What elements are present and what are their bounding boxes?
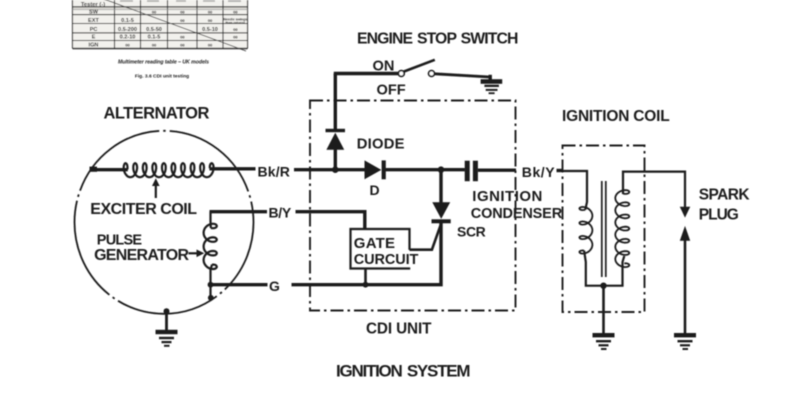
wire: primary coil top lead — [563, 171, 588, 210]
svg-text:∞: ∞ — [233, 9, 238, 16]
wire: pulse generator top lead — [209, 212, 212, 228]
pulse generator pointer arrow — [189, 250, 205, 258]
switch blade — [404, 60, 435, 72]
wire: B/Y from pulse generator — [210, 210, 268, 213]
svg-text:IGNITION COIL: IGNITION COIL — [562, 108, 670, 125]
svg-text:IGN: IGN — [89, 43, 99, 49]
ground: spark plug — [674, 333, 696, 350]
spark plug electrode arrow (up) — [680, 226, 690, 241]
svg-text:GENERATOR: GENERATOR — [94, 247, 189, 264]
gate circuit box — [351, 229, 411, 269]
svg-text:∞: ∞ — [233, 34, 238, 41]
wire: secondary top lead to spark plug — [623, 172, 685, 208]
junction: pulse lead on alternator frame — [208, 295, 214, 301]
wire: B/Y into CDI unit — [296, 212, 365, 230]
junction: pulse coil bottom — [208, 282, 214, 288]
svg-text:GATE: GATE — [354, 235, 395, 252]
wire: switch to ground — [435, 74, 491, 77]
wire: ignition coil ground lead — [602, 286, 605, 334]
svg-text:EXT: EXT — [88, 18, 99, 24]
junction: alternator frame to ground — [164, 308, 170, 314]
svg-text:∞: ∞ — [152, 9, 157, 16]
svg-text:ENGINE STOP SWITCH: ENGINE STOP SWITCH — [357, 30, 518, 47]
multimeter test table background — [73, 0, 248, 49]
SCR — [432, 202, 451, 223]
svg-text:D: D — [370, 182, 380, 198]
svg-text:Multimeter reading table – UK: Multimeter reading table – UK models — [118, 60, 209, 66]
ignition coil enclosure (dash-dot box) — [563, 146, 645, 313]
wire: gate circuit bottom lead — [364, 269, 367, 285]
svg-text:Tester (-): Tester (-) — [81, 2, 105, 8]
ground: ignition coil — [593, 333, 615, 350]
diode (vertical, to stop switch) — [326, 129, 346, 150]
exciter coil pointer arrow — [152, 178, 160, 198]
table row IGN — [89, 42, 213, 49]
svg-text:Bk/R: Bk/R — [258, 163, 291, 179]
wire: exciter coil left lead — [93, 168, 128, 171]
wire: SCR anode lead — [439, 170, 442, 203]
svg-text:0.5-200: 0.5-200 — [118, 27, 137, 33]
table row PC — [90, 26, 238, 33]
svg-text:EXCITER COIL: EXCITER COIL — [90, 201, 197, 218]
svg-text:0.5-10: 0.5-10 — [202, 27, 218, 33]
junction: SCR branch — [438, 166, 445, 173]
svg-text:PC: PC — [90, 27, 98, 33]
svg-text:IGNITION: IGNITION — [472, 188, 543, 205]
svg-text:OFF: OFF — [377, 83, 406, 99]
svg-text:0.2-10: 0.2-10 — [120, 35, 136, 41]
ignition condenser capacitor — [465, 161, 478, 182]
svg-text:∞: ∞ — [152, 42, 157, 49]
svg-text:∞: ∞ — [208, 17, 213, 24]
exciter coil left terminal — [90, 167, 98, 172]
exciter coil — [124, 163, 214, 177]
diode D — [365, 160, 386, 179]
svg-text:∞: ∞ — [180, 42, 185, 49]
table row E — [92, 34, 238, 41]
svg-text:Bk/Y: Bk/Y — [522, 164, 555, 180]
table row SW — [89, 9, 238, 16]
svg-text:CDI UNIT: CDI UNIT — [366, 321, 432, 338]
junction: gate circuit to G wire — [363, 282, 369, 288]
ignition coil primary winding — [579, 207, 592, 254]
junction: coil common to ground — [600, 283, 606, 289]
wire: primary bottom to common — [584, 251, 624, 286]
ignition coil secondary winding — [615, 190, 629, 267]
svg-text:∞: ∞ — [180, 17, 185, 24]
table diagonal line — [101, 0, 246, 51]
wire: switch feed horizontal — [334, 72, 399, 75]
wire: diode to Bk/R junction — [334, 150, 337, 171]
wire: condenser to Bk/Y — [478, 168, 516, 171]
svg-text:then returns: then returns — [225, 21, 245, 25]
SCR gate lead — [410, 224, 442, 250]
pulse generator coil — [204, 224, 217, 269]
svg-text:IGNITION SYSTEM: IGNITION SYSTEM — [336, 362, 470, 381]
svg-text:SPARK: SPARK — [699, 187, 751, 204]
ground: engine stop switch — [481, 75, 503, 94]
svg-text:CONDENSER: CONDENSER — [471, 206, 563, 222]
svg-text:ALTERNATOR: ALTERNATOR — [104, 104, 210, 122]
ignition coil core — [602, 181, 606, 277]
wire: G from pulse generator — [210, 283, 268, 286]
ground: alternator — [156, 330, 178, 347]
svg-text:0.1-5: 0.1-5 — [148, 35, 161, 41]
svg-text:DIODE: DIODE — [357, 136, 405, 152]
table header remnants (cut off at top) — [120, 0, 241, 2]
junction: stop switch branch — [332, 166, 339, 173]
alternator body (circle) — [75, 131, 254, 314]
switch contact right — [429, 71, 435, 77]
svg-text:∞: ∞ — [125, 42, 130, 49]
svg-text:∞: ∞ — [233, 26, 238, 33]
svg-text:0.5-50: 0.5-50 — [146, 27, 162, 33]
wire: switch feed vertical — [334, 74, 337, 130]
wire: pulse generator bottom lead — [211, 265, 213, 298]
svg-text:SCR: SCR — [457, 224, 486, 240]
wire: spark plug ground electrode — [684, 239, 687, 334]
svg-text:B/Y: B/Y — [269, 204, 292, 220]
multimeter test table grid — [73, 0, 248, 49]
wire: Bk/R main line into CDI — [294, 168, 365, 171]
wire: Bk/Y to ignition coil — [557, 169, 564, 172]
svg-text:Fig. 3.6 CDI unit testing: Fig. 3.6 CDI unit testing — [135, 74, 189, 80]
table row EXT — [88, 17, 247, 25]
svg-text:G: G — [269, 278, 281, 294]
svg-text:∞: ∞ — [208, 9, 213, 16]
svg-text:∞: ∞ — [180, 9, 185, 16]
wire: diode D to condenser — [386, 168, 465, 171]
wire: alternator ground lead — [165, 311, 168, 331]
spark plug electrode arrow (down) — [680, 207, 690, 218]
svg-text:0.1-5: 0.1-5 — [121, 18, 134, 24]
wire: G into CDI unit to SCR cathode — [292, 223, 442, 285]
switch contact left — [398, 71, 404, 77]
svg-text:SW: SW — [89, 10, 99, 16]
svg-text:CURCUIT: CURCUIT — [354, 252, 419, 268]
svg-text:∞: ∞ — [208, 42, 213, 49]
svg-text:∞: ∞ — [180, 34, 185, 41]
svg-text:PLUG: PLUG — [699, 206, 739, 223]
CDI unit enclosure (dash-dot box) — [310, 101, 516, 311]
svg-text:E: E — [92, 35, 96, 41]
wire: exciter coil right lead to Bk/R — [209, 167, 255, 170]
